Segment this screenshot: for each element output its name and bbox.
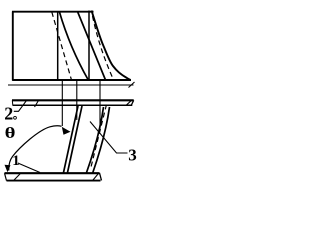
arrow at arc bottom xyxy=(5,127,71,173)
plate 2: top edge xyxy=(12,99,134,101)
plate 2: right end xyxy=(131,100,134,105)
slat S1 front: left line xyxy=(64,106,79,173)
projection line P3 xyxy=(99,80,101,130)
slat S1 plan: dashed alternate D xyxy=(52,12,72,80)
plate 1: left hatch xyxy=(14,173,21,180)
svg-text:1: 1 xyxy=(12,153,19,169)
slat S2 front: right line xyxy=(93,107,110,173)
leader for label 3 xyxy=(90,122,128,154)
top view: top edge xyxy=(12,11,94,13)
slat S1 front: right line xyxy=(68,106,83,173)
top view: lower sub-line xyxy=(8,84,134,86)
svg-text:2: 2 xyxy=(4,104,13,124)
projection line P2 xyxy=(76,80,78,120)
plate 1: bottom edge xyxy=(7,180,101,182)
label 2 dot xyxy=(14,116,17,119)
top view: left edge xyxy=(12,12,14,81)
svg-text:3: 3 xyxy=(128,145,137,164)
slat S2 plan: vertical edge V2 xyxy=(88,11,90,81)
slat S2 plan: dashed alternate E xyxy=(93,16,113,78)
plate 2: leader from label 2 crossing left end xyxy=(14,100,27,112)
plate 1: right hatch xyxy=(93,173,99,180)
angle arc theta xyxy=(9,126,62,171)
top view: sub-line end tick xyxy=(129,82,135,88)
dashed alternate slat position F xyxy=(91,105,107,170)
slat S1 plan: vertical edge V1 xyxy=(57,12,59,81)
plate 2: left end xyxy=(11,100,14,105)
plate 2: mid hatch xyxy=(35,101,39,108)
slat S2 front: left line xyxy=(87,107,104,173)
arrow at arc top xyxy=(62,127,71,135)
leader for label 1 xyxy=(18,163,40,173)
plate 1: left end xyxy=(5,173,7,180)
plate 2: right hatch xyxy=(126,100,132,105)
slat mid sheared edge B xyxy=(78,12,106,81)
plate 1: top edge xyxy=(5,172,100,174)
slat S1 plan: sheared edge A xyxy=(59,12,88,81)
slat S2 plan: sheared hypotenuse H xyxy=(92,11,131,81)
svg-text:θ: θ xyxy=(5,124,16,142)
plate 2: bottom edge xyxy=(13,104,133,106)
projection line P1 xyxy=(61,80,63,126)
plate 1: right end xyxy=(100,173,102,181)
top view: bottom edge xyxy=(12,79,131,81)
